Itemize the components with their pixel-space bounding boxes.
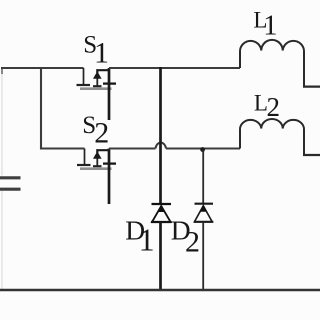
wire bottom rail bbox=[0, 289, 320, 292]
switch S2 bbox=[77, 149, 116, 205]
wire D2 branch upper bbox=[202, 150, 204, 204]
wire left rail lower (faint) bbox=[1, 191, 3, 290]
inductor L1 bbox=[240, 40, 304, 87]
wire S2 row right of hop to L2 bbox=[166, 148, 240, 150]
wire D1 branch upper bbox=[159, 67, 162, 204]
wire top-left corner tick bbox=[1, 67, 3, 74]
wire top left (source plus to S1) bbox=[1, 67, 84, 69]
wire top middle (S1 to junction and L1) bbox=[109, 67, 240, 69]
switch S1 bbox=[77, 68, 117, 120]
wire D1 branch lower bbox=[159, 222, 162, 290]
svg-text:1: 1 bbox=[263, 11, 277, 42]
label L1 bbox=[253, 7, 277, 41]
node junction D2 bbox=[200, 147, 205, 152]
svg-text:2: 2 bbox=[267, 92, 281, 122]
svg-text:2: 2 bbox=[185, 226, 200, 259]
wire hop over D1 branch bbox=[156, 143, 167, 149]
label S2 bbox=[82, 112, 109, 150]
wire branch down at x=41 bbox=[41, 68, 85, 149]
svg-text:1: 1 bbox=[94, 36, 109, 69]
label D2 bbox=[171, 215, 200, 259]
label D1 bbox=[125, 215, 154, 258]
svg-text:2: 2 bbox=[94, 117, 109, 150]
wire L1 output bbox=[303, 85, 320, 87]
wire S2 row left of hop bbox=[109, 148, 156, 150]
wire L2 output bbox=[303, 154, 320, 156]
svg-text:1: 1 bbox=[139, 222, 155, 258]
DC source V bars bbox=[0, 178, 21, 189]
label S1 bbox=[83, 32, 109, 70]
diode D1 bbox=[151, 204, 172, 222]
wire D2 branch lower bbox=[202, 222, 204, 290]
inductor L2 bbox=[240, 119, 304, 155]
diode D2 bbox=[194, 204, 213, 222]
wire left rail upper (faint) bbox=[1, 69, 3, 176]
label L2 bbox=[254, 90, 280, 122]
